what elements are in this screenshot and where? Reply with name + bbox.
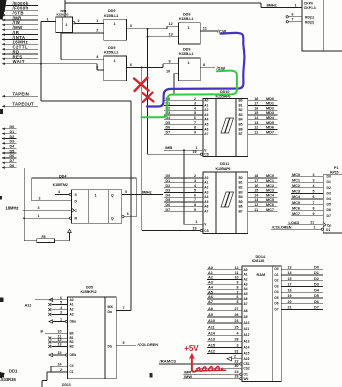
svg-text:D5: D5 — [314, 294, 319, 298]
svg-text:16: 16 — [254, 184, 258, 188]
svg-text:A4: A4 — [244, 287, 248, 291]
svg-text:5: 5 — [194, 111, 196, 115]
svg-text:28: 28 — [235, 338, 239, 342]
svg-text:7: 7 — [194, 198, 196, 202]
svg-text:P1: P1 — [334, 166, 338, 170]
svg-text:CS2: CS2 — [244, 367, 250, 371]
wire RAM A16 input open arrow pin 2 — [227, 357, 232, 361]
wire DD11 input D1 pin 3 — [164, 182, 203, 184]
or-gate DD9.4 body — [179, 58, 201, 81]
junction /MB net — [183, 149, 185, 151]
svg-text:9: 9 — [123, 341, 125, 345]
svg-text:11: 11 — [310, 221, 314, 225]
svg-text:D2: D2 — [314, 277, 319, 281]
svg-text:26: 26 — [235, 313, 239, 317]
svg-text:13: 13 — [169, 32, 173, 36]
svg-text:CS: CS — [204, 153, 208, 157]
node TAPEOUT stub wire — [2, 105, 5, 108]
wire jog up into DD9.4 pin 9 — [162, 64, 164, 68]
svg-text:8: 8 — [194, 203, 196, 207]
svg-text:B6: B6 — [239, 127, 243, 131]
svg-text:LOAD: LOAD — [289, 221, 300, 225]
svg-text:A5: A5 — [204, 200, 208, 204]
svg-text:D7: D7 — [166, 130, 171, 134]
wire top rail drop at x261 — [260, 3, 262, 8]
svg-text:17: 17 — [288, 283, 292, 287]
svg-text:K155LL1: K155LL1 — [179, 17, 193, 21]
svg-text:27: 27 — [235, 307, 239, 311]
multiplexer DD5 internal divider — [104, 297, 106, 379]
scan artifact small mark near RAM x150 — [150, 373, 153, 378]
svg-text:A5: A5 — [204, 123, 208, 127]
svg-text:K155LL1: K155LL1 — [104, 51, 118, 55]
svg-text:9: 9 — [194, 208, 196, 212]
wire DD5 input OEb pin 15 — [65, 354, 67, 356]
svg-text:D1: D1 — [166, 179, 171, 183]
svg-text:8: 8 — [237, 285, 239, 289]
wire net Da vertical x41 up to DD1 input — [40, 22, 42, 102]
wire DD10 input D3 pin 5 — [164, 114, 203, 116]
wire DD4 /Q output pin 6 with bubble — [122, 215, 124, 217]
node D3 stub wire — [2, 142, 5, 145]
node TAPEIN stub wire — [2, 95, 5, 98]
svg-text:23: 23 — [235, 319, 239, 323]
wire /CW vertical down to DD10 OE — [147, 29, 149, 155]
svg-text:D7: D7 — [10, 159, 15, 163]
svg-text:D6: D6 — [166, 126, 171, 130]
svg-text:B2: B2 — [239, 108, 243, 112]
svg-text:7: 7 — [237, 290, 239, 294]
svg-text:.533R35: .533R35 — [0, 377, 17, 382]
wire RAM address A7 pin 5 — [207, 303, 242, 305]
svg-text:A10: A10 — [208, 319, 215, 323]
node /F000h stub wire — [2, 9, 5, 12]
svg-text:DD1: DD1 — [9, 368, 18, 373]
svg-text:1: 1 — [314, 225, 316, 229]
svg-text:MC5: MC5 — [266, 198, 274, 202]
junction on /SW net at x141.8 — [141, 66, 143, 68]
svg-text:3: 3 — [237, 344, 239, 348]
svg-text:O3: O3 — [274, 284, 278, 288]
svg-text:D0: D0 — [166, 174, 171, 178]
wire RAM address A1 pin 11 — [207, 274, 242, 276]
resistor R5 — [37, 239, 55, 243]
svg-text:2: 2 — [313, 173, 315, 177]
wire RAM address A15 pin 3 — [207, 346, 242, 348]
svg-text:A4: A4 — [204, 118, 208, 122]
svg-text:1: 1 — [188, 26, 190, 30]
svg-text:15: 15 — [58, 351, 62, 355]
svg-text:Da: Da — [108, 310, 112, 314]
svg-text:D3: D3 — [166, 189, 171, 193]
svg-text:D2: D2 — [327, 186, 331, 190]
svg-text:4: 4 — [194, 184, 196, 188]
wire RAM address A2 pin 10 — [207, 279, 242, 281]
svg-text:/MW: /MW — [184, 374, 192, 379]
annotation green line new /SW routing — [142, 71, 237, 118]
svg-text:2: 2 — [39, 196, 41, 200]
svg-text:A0: A0 — [204, 176, 208, 180]
svg-text:B2: B2 — [70, 340, 74, 344]
scan artifact left edge mark y110 — [0, 109, 3, 114]
svg-text:D7: D7 — [314, 306, 319, 310]
svg-text:8MHz: 8MHz — [142, 189, 152, 194]
svg-text:19: 19 — [193, 226, 197, 230]
svg-text:A9: A9 — [208, 313, 213, 317]
svg-text:D2: D2 — [10, 135, 15, 139]
svg-text:1: 1 — [295, 4, 297, 8]
node /E000h stub wire — [2, 4, 5, 7]
svg-text:10: 10 — [235, 276, 239, 280]
wire DD10 input D7 pin 9 — [164, 133, 203, 135]
wire DD5 input B1 pin 11 — [48, 337, 51, 340]
node D1 stub wire — [2, 132, 5, 135]
multiplexer DD5 body — [68, 297, 117, 379]
node D8 stub wire — [2, 166, 5, 169]
svg-text:A8: A8 — [244, 309, 248, 313]
svg-text:9: 9 — [237, 281, 239, 285]
wire DD5 C1 loop down off-page — [46, 372, 48, 381]
svg-text:R5: R5 — [42, 235, 46, 239]
wire DD5 input B3 pin 13 — [48, 345, 51, 348]
svg-text:8MHz: 8MHz — [267, 3, 277, 8]
wire DD9.4 pin 10 stub with vertical — [174, 73, 179, 75]
svg-text:CKP0: CKP0 — [304, 2, 313, 6]
svg-text:3: 3 — [38, 206, 40, 210]
svg-text:A3: A3 — [204, 113, 208, 117]
node D0 stub wire — [2, 128, 5, 131]
svg-text:B4: B4 — [239, 118, 243, 122]
DD12 clock dynamic input symbol — [323, 223, 326, 227]
svg-text:A7: A7 — [204, 132, 208, 136]
svg-text:6: 6 — [292, 13, 294, 17]
svg-text:16: 16 — [254, 106, 258, 110]
svg-text:A2: A2 — [208, 276, 213, 280]
svg-text:D5: D5 — [10, 149, 15, 153]
svg-text:MC1: MC1 — [292, 178, 300, 182]
svg-text:D0: D0 — [314, 265, 319, 269]
svg-text:1: 1 — [196, 220, 198, 224]
svg-text:1: 1 — [65, 23, 67, 27]
scan artifact left edge mark y299 — [0, 298, 4, 303]
svg-text:1: 1 — [188, 61, 190, 65]
svg-text:2: 2 — [78, 19, 80, 23]
svg-text:B1: B1 — [239, 181, 243, 185]
wire DD4 Q output pin 5 net 8MHz — [122, 194, 163, 196]
svg-text:MC4: MC4 — [292, 195, 301, 199]
svg-text:WAIT: WAIT — [13, 59, 25, 64]
buffer DD11 body — [203, 172, 248, 234]
svg-text:DD11: DD11 — [220, 162, 229, 166]
svg-text:1: 1 — [95, 194, 97, 198]
svg-text:10: 10 — [166, 69, 170, 73]
svg-text:O1: O1 — [274, 273, 278, 277]
svg-text:A15: A15 — [244, 352, 250, 356]
wire DD11 input D4 pin 6 — [164, 196, 203, 198]
svg-text:19: 19 — [193, 150, 197, 154]
node D4 stub wire — [2, 147, 5, 150]
svg-text:MC1: MC1 — [266, 179, 274, 183]
svg-text:O4: O4 — [274, 290, 278, 294]
register DD12 body (cut at edge) — [323, 175, 342, 233]
svg-text:D5: D5 — [166, 121, 171, 125]
svg-text:B3: B3 — [239, 190, 243, 194]
wire DD9.3 output pin 11 net /CW — [200, 30, 218, 32]
svg-text:20: 20 — [288, 300, 292, 304]
wire net Da horizontal y101 — [41, 100, 131, 102]
svg-text:O0: O0 — [274, 267, 278, 271]
buffer DD11 symbol — [221, 192, 234, 207]
svg-text:W0: W0 — [244, 377, 249, 381]
svg-text:8: 8 — [313, 206, 315, 210]
clock chip pin 6 input bubble and wire — [286, 16, 288, 18]
svg-text:RAM: RAM — [257, 273, 266, 277]
svg-text:B6: B6 — [239, 205, 243, 209]
buffer DD10 symbol — [221, 118, 234, 133]
svg-text:5: 5 — [237, 300, 239, 304]
svg-text:K155LL1: K155LL1 — [179, 52, 193, 56]
svg-text:8: 8 — [194, 126, 196, 130]
wire DD4 R input pin 1 with bubble — [69, 217, 71, 219]
svg-text:3: 3 — [130, 24, 132, 28]
svg-text:A3: A3 — [208, 281, 213, 285]
svg-text:MC3: MC3 — [292, 190, 300, 194]
svg-text:A14: A14 — [208, 331, 216, 335]
wire RAM address A12 pin 31 — [207, 353, 242, 355]
svg-text:Q: Q — [111, 217, 114, 221]
svg-text:A0: A0 — [204, 99, 208, 103]
svg-text:31: 31 — [235, 350, 239, 354]
svg-text:D6: D6 — [314, 300, 319, 304]
svg-text:O5: O5 — [274, 296, 278, 300]
svg-text:1: 1 — [60, 318, 62, 322]
svg-text:OEa: OEa — [70, 320, 77, 324]
svg-text:D7: D7 — [327, 214, 331, 218]
wire RAM address A10 pin 23 — [207, 322, 242, 324]
svg-text:14: 14 — [288, 271, 292, 275]
wire DD9.2 input pin 6 from WAIT net — [41, 63, 97, 65]
svg-text:18: 18 — [288, 288, 292, 292]
svg-text:D7: D7 — [166, 208, 171, 212]
wire RAM address A0 pin 12 — [207, 269, 242, 271]
svg-text:9: 9 — [313, 212, 315, 216]
svg-text:11: 11 — [203, 26, 207, 30]
svg-text:25: 25 — [235, 325, 239, 329]
svg-text:D3: D3 — [314, 283, 319, 287]
svg-text:13: 13 — [288, 265, 292, 269]
wire DD11 input D0 pin 2 — [164, 177, 203, 179]
svg-text:4: 4 — [194, 106, 196, 110]
annotation blue line new /CW routing — [147, 33, 244, 107]
wire DD5 input A2 pin 4 — [48, 308, 51, 311]
svg-text:A1: A1 — [204, 181, 208, 185]
svg-text:C1: C1 — [70, 370, 74, 374]
svg-text:5: 5 — [60, 301, 62, 305]
svg-text:D6: D6 — [166, 203, 171, 207]
svg-text:K155TM2: K155TM2 — [53, 183, 68, 187]
svg-text:A13: A13 — [208, 338, 215, 342]
svg-text:K155AP6: K155AP6 — [216, 167, 231, 171]
svg-text:9: 9 — [169, 59, 171, 63]
node WAIT stub wire — [2, 62, 5, 65]
svg-text:6: 6 — [96, 65, 98, 69]
svg-text:DD5: DD5 — [86, 285, 93, 289]
wire DD10 OE pin 19 from /CW — [148, 153, 201, 155]
svg-text:D6: D6 — [327, 208, 331, 212]
svg-text:TAPEIN: TAPEIN — [13, 92, 30, 97]
svg-text:1: 1 — [96, 19, 98, 23]
buffer DD10 body — [203, 99, 248, 157]
svg-text:29: 29 — [235, 374, 239, 378]
wire DD5 input OEa pin 1 — [65, 320, 67, 322]
svg-text:A7: A7 — [204, 210, 208, 214]
node RES stub wire — [2, 58, 5, 61]
svg-text:D0: D0 — [10, 125, 15, 129]
wire feedback top rail from /Q to D — [32, 177, 137, 179]
svg-text:5: 5 — [125, 190, 127, 194]
svg-text:4: 4 — [237, 331, 239, 335]
svg-text:A1: A1 — [204, 103, 208, 107]
svg-text:O2: O2 — [274, 279, 278, 283]
or-gate DD9.1 body — [104, 19, 127, 40]
svg-text:9: 9 — [194, 130, 196, 134]
junction on /CW net at x147.5 — [147, 28, 149, 30]
svg-text:+5V: +5V — [184, 344, 199, 353]
wire RAM address A13 pin 28 — [207, 340, 242, 342]
wire DD10 input D0 pin 2 — [164, 100, 203, 102]
svg-text:18: 18 — [254, 174, 258, 178]
svg-text:MC2: MC2 — [266, 184, 274, 188]
svg-text:B3: B3 — [239, 113, 243, 117]
svg-text:A0: A0 — [244, 268, 248, 272]
wire DD1 top to top rail — [64, 0, 66, 17]
or-gate DD9.2 body — [104, 56, 127, 81]
wire resistor to +5V symbol — [54, 240, 69, 242]
svg-text:A5: A5 — [244, 292, 248, 296]
annotation red X mark 1 — [134, 78, 149, 92]
svg-text:Q: Q — [111, 194, 114, 198]
node /IR stub wire — [2, 33, 5, 36]
svg-text:2: 2 — [234, 355, 236, 359]
wire vertical x24 from upper area to R row — [23, 168, 25, 218]
wire RAM address A11 pin 25 — [207, 328, 242, 330]
svg-text:B3: B3 — [70, 344, 74, 348]
svg-text:5: 5 — [194, 189, 196, 193]
svg-text:A9: A9 — [244, 315, 248, 319]
svg-text:A4: A4 — [204, 195, 208, 199]
wire DD5 input B2 pin 12 — [48, 341, 51, 344]
svg-text:5: 5 — [313, 190, 315, 194]
svg-text:/RAMCS: /RAMCS — [160, 359, 177, 364]
svg-text:15: 15 — [254, 111, 258, 115]
wire jog up into DD9.3 pin 12 — [166, 26, 168, 29]
svg-text:/COLOREN: /COLOREN — [138, 342, 159, 347]
svg-text:4: 4 — [60, 306, 62, 310]
svg-text:A2: A2 — [70, 308, 74, 312]
or-gate DD9.3 body — [179, 23, 201, 44]
wire DD5 input A1 pin 5 — [48, 303, 51, 306]
svg-text:MC7: MC7 — [266, 208, 274, 212]
svg-text:13: 13 — [254, 121, 258, 125]
svg-text:KP15: KP15 — [330, 171, 339, 175]
svg-text:12: 12 — [58, 338, 62, 342]
svg-text:O1: O1 — [326, 228, 331, 232]
svg-text:6: 6 — [194, 116, 196, 120]
svg-text:A11: A11 — [25, 303, 33, 308]
wire DD5 input C0 pin 14 — [51, 365, 68, 367]
svg-text:8: 8 — [203, 63, 205, 67]
svg-text:A6: A6 — [244, 297, 248, 301]
wire RAM address A6 pin 6 — [207, 298, 242, 300]
svg-text:6: 6 — [313, 195, 315, 199]
svg-text:MX: MX — [108, 305, 114, 309]
inverter DD1 body — [56, 17, 73, 33]
svg-text:B0: B0 — [239, 99, 243, 103]
svg-text:O6: O6 — [274, 302, 278, 306]
node D5 stub wire — [2, 152, 5, 155]
svg-text:15: 15 — [288, 277, 292, 281]
wire RAM address A14 pin 4 — [207, 334, 242, 336]
junction WAIT net at x41 — [40, 63, 42, 65]
svg-text:MC6: MC6 — [292, 206, 300, 210]
svg-text:7: 7 — [313, 201, 315, 205]
annotation red scribble crossing out CS2 wire — [196, 367, 226, 372]
svg-text:22: 22 — [235, 360, 239, 364]
buffer DD10 internal dividers — [215, 99, 217, 157]
svg-text:6: 6 — [130, 63, 132, 67]
wire DD5 input A3 pin 3 — [48, 313, 51, 316]
node D7 stub wire — [2, 161, 5, 164]
wire DD9.4 output pin 8 net /SW — [200, 67, 215, 69]
svg-text:A0: A0 — [208, 266, 213, 270]
svg-text:4: 4 — [313, 184, 315, 188]
node /MW stub wire — [2, 28, 5, 31]
svg-text:3: 3 — [194, 179, 196, 183]
svg-text:CS: CS — [204, 229, 208, 233]
svg-text:6: 6 — [194, 193, 196, 197]
svg-text:7: 7 — [292, 18, 294, 22]
svg-text:C0: C0 — [70, 364, 74, 368]
wire DD10 input D5 pin 7 — [164, 124, 203, 126]
svg-text:6: 6 — [60, 296, 62, 300]
svg-text:11: 11 — [235, 271, 239, 275]
scan artifact top-left corner blob — [0, 0, 7, 20]
svg-text:12: 12 — [235, 266, 239, 270]
svg-text:A6: A6 — [204, 127, 208, 131]
clock-generator chip U-top-right body (cut at edge) — [302, 0, 342, 51]
wire DD9.1 output pin 3 — [127, 28, 167, 30]
svg-text:A12: A12 — [244, 333, 250, 337]
svg-text:2: 2 — [194, 174, 196, 178]
node /MR stub wire — [2, 19, 5, 22]
svg-text:DD9: DD9 — [183, 13, 190, 17]
svg-text:DD13: DD13 — [62, 383, 71, 387]
node D6 stub wire — [2, 157, 5, 160]
svg-text:7: 7 — [123, 306, 125, 310]
svg-text:12: 12 — [169, 22, 173, 26]
svg-text:A11: A11 — [244, 327, 250, 331]
svg-text:MC0: MC0 — [292, 173, 300, 177]
svg-text:B0: B0 — [239, 176, 243, 180]
clock chip pin 7 input bubble and wire — [286, 21, 288, 23]
svg-text:D5: D5 — [327, 203, 331, 207]
svg-text:1: 1 — [114, 22, 116, 26]
wire net Da vertical x131 — [130, 101, 132, 310]
svg-text:D3: D3 — [10, 140, 15, 144]
wire DD11 input D2 pin 4 — [164, 187, 203, 189]
clock chip internal divider — [322, 0, 324, 51]
svg-text:13: 13 — [254, 198, 258, 202]
